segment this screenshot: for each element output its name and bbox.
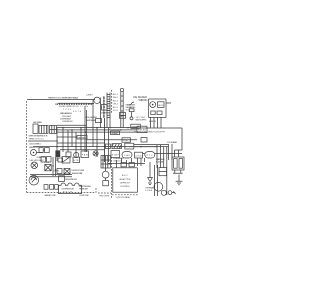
junction dots on bus	[62, 127, 129, 133]
connector P5: jamb column hatched header	[101, 156, 111, 169]
svg-text:START RELAY: START RELAY	[156, 158, 166, 161]
svg-text:FAN: FAN	[82, 154, 88, 157]
wire: cabinet liner dashed boundary (left)	[26, 101, 28, 192]
svg-text:GRN: GRN	[53, 171, 59, 173]
node label: mid small box left	[111, 131, 120, 135]
box: door switch pair	[41, 157, 51, 162]
svg-text:HTR: HTR	[74, 160, 79, 162]
fuse F1: box with X	[45, 164, 51, 170]
svg-text:FRZ LIGHT: FRZ LIGHT	[100, 196, 111, 198]
node label: mid rows	[72, 170, 86, 175]
svg-text:115V 60HZ: 115V 60HZ	[62, 116, 72, 118]
svg-text:WH BK OR: WH BK OR	[59, 106, 69, 108]
timer M1: defrost timer narrow box	[33, 124, 38, 133]
bus: main supply line L	[57, 127, 138, 129]
connector J1: terminal strip with ticks	[56, 103, 92, 105]
wire: drop x85.5 double	[85, 106, 87, 152]
box: small connector stub	[96, 119, 102, 123]
svg-text:MAIN HARNESS: MAIN HARNESS	[60, 112, 73, 115]
lamp L3: small bulb below module	[131, 112, 133, 117]
node label: mid small box right	[122, 138, 131, 142]
node label: thermal fuse text	[145, 187, 155, 193]
box: heater tag	[73, 157, 80, 162]
svg-text:BU-5: BU-5	[113, 107, 119, 109]
capacitor C1: pill component	[122, 152, 132, 158]
title: ICE MAKER WIRING	[131, 95, 148, 104]
bus: main supply line G	[57, 131, 138, 133]
svg-text:CONTROL: CONTROL	[120, 186, 131, 188]
svg-text:RELAY: RELAY	[138, 129, 147, 132]
svg-text:RSCR: RSCR	[63, 191, 72, 193]
junction dots rung D	[56, 146, 142, 148]
svg-text:COLD CONTROL: COLD CONTROL	[29, 143, 42, 145]
ground: flag arrow symbol	[148, 162, 153, 185]
svg-text:DEFROST: DEFROST	[120, 182, 131, 184]
wire: drop x72	[71, 130, 73, 147]
node label: upper small box	[131, 124, 141, 128]
wire: ovld drops to ADC	[138, 158, 145, 166]
svg-text:SENSOR: SENSOR	[132, 127, 140, 129]
node label: mid harness rows right	[85, 116, 97, 122]
left cluster: defrost components	[31, 148, 50, 156]
svg-text:WH-2: WH-2	[113, 97, 119, 99]
wire: low voltage dashed boundary	[111, 157, 113, 199]
svg-text:COMP GND: COMP GND	[79, 195, 89, 197]
wire: long rung D	[33, 146, 168, 148]
wire: cabinet liner dashed boundary (bottom)	[27, 188, 96, 192]
wire: freezer light dashed bottom	[98, 192, 111, 194]
box: band small box B	[129, 163, 135, 167]
wire: lamp stem pair	[99, 98, 101, 128]
wire: block bottom stubs	[173, 170, 183, 173]
box: aux contact small box	[141, 138, 147, 143]
svg-text:DEFROST TIMER MOTOR: DEFROST TIMER MOTOR	[29, 136, 48, 138]
svg-text:DOOR JAMB: DOOR JAMB	[167, 141, 178, 144]
svg-text:RD BU GY: RD BU GY	[69, 106, 80, 108]
box: right small relay	[159, 168, 167, 176]
wire: cluster verticals	[53, 157, 56, 176]
switch S2: grid contact box	[50, 125, 57, 133]
svg-text:ADAPTIVE: ADAPTIVE	[120, 178, 132, 181]
svg-text:FRESH FOOD: FRESH FOOD	[29, 147, 39, 149]
svg-text:60HZ SUPPLY: 60HZ SUPPLY	[136, 120, 148, 122]
svg-text:LIMIT: LIMIT	[123, 140, 131, 142]
svg-text:1 2 3 4: 1 2 3 4	[63, 109, 72, 111]
svg-text:THERMOSTAT: THERMOSTAT	[72, 172, 84, 175]
node label: ice maker pair rows	[126, 103, 133, 111]
relay K2: icemaker module box	[158, 102, 164, 108]
box: band small box A	[121, 163, 127, 167]
vertical wires from bus	[57, 100, 109, 162]
wire: partial upper bus line	[57, 124, 86, 126]
svg-text:BK-1: BK-1	[113, 94, 119, 96]
svg-text:LOW VOLTAGE: LOW VOLTAGE	[116, 196, 131, 199]
lamp L1: door liner light loop	[89, 97, 101, 104]
ground: small chassis mark	[168, 191, 176, 195]
motor M2: condenser fan motor	[29, 175, 39, 185]
cable W2: hatched cable run	[103, 96, 105, 118]
svg-text:TERM 1 3 TO 2 4: TERM 1 3 TO 2 4	[29, 139, 45, 141]
lamp L4: freezer light bulb	[102, 168, 109, 180]
cable W3: ice maker twisted pair	[120, 88, 123, 128]
svg-text:DEF HTR 450W: DEF HTR 450W	[30, 160, 45, 162]
wire: drop x63	[62, 128, 64, 152]
wire: left cluster link	[37, 150, 45, 153]
wire: left lower horizontal	[28, 140, 58, 142]
svg-text:RD-3: RD-3	[113, 100, 119, 102]
box: mesh bottom labelled box	[81, 151, 88, 158]
net names: right text column at connector	[112, 90, 119, 114]
receptacle J4: dual slot terminal block	[172, 157, 184, 170]
box: light socket	[103, 181, 109, 186]
svg-text:FUSE: FUSE	[145, 190, 153, 192]
compressor M4: shell with bumps	[59, 183, 82, 194]
svg-text:EARTH: EARTH	[149, 120, 156, 123]
wire: drop x68	[67, 130, 69, 152]
wire: lower-left rails	[30, 175, 72, 177]
svg-text:WIRING: WIRING	[139, 98, 148, 102]
connector P3: ladder bundle	[107, 93, 110, 128]
fuse F3: x-box mid	[64, 169, 70, 175]
wire: rung E	[60, 149, 105, 151]
wire: compartment top border	[27, 99, 95, 101]
label: low voltage dashed under ADC	[112, 195, 138, 199]
relay K1: start relay pill	[145, 152, 155, 158]
wire: right pair drops	[169, 144, 173, 160]
wire: leader to icemaker rows	[131, 102, 134, 104]
timer M1: cam box with segments	[39, 125, 48, 133]
switch S4: light switch circle with X	[31, 162, 38, 169]
node label: start relay text	[156, 158, 166, 164]
wire: drop x81	[80, 128, 82, 150]
wire: drop x76	[75, 132, 77, 157]
svg-text:ADC: ADC	[122, 174, 128, 177]
ground: earth symbol	[176, 175, 183, 185]
box: overload protector	[135, 152, 143, 158]
svg-text:LAMP: LAMP	[86, 93, 94, 96]
svg-text:FRESH FOOD COMPARTMENT AREA: FRESH FOOD COMPARTMENT AREA	[48, 96, 79, 99]
svg-text:CABINET GND: CABINET GND	[44, 194, 56, 197]
lamp L6: small circle with x	[93, 151, 98, 156]
thermostat S3: circle with dot	[31, 150, 37, 156]
wire: right feed drop	[181, 128, 183, 150]
wire: ladder rung B	[87, 139, 137, 141]
wire: drop x93	[92, 100, 94, 146]
node label: compressor side rows	[79, 185, 91, 191]
pilot lamp L2: mesh bottom circle	[74, 152, 79, 157]
wire: drop x104.5	[104, 118, 106, 162]
wire: ladder rung A	[57, 136, 77, 138]
controller U1: adaptive defrost control	[113, 168, 138, 192]
svg-text:RUN CAP: RUN CAP	[156, 160, 165, 163]
box: terminal pair A	[39, 148, 43, 153]
svg-text:CONN BLOCK: CONN BLOCK	[62, 121, 74, 123]
svg-text:CAP: CAP	[124, 154, 131, 157]
box: mesh bottom small box	[66, 152, 71, 157]
transformer T1: dark core blob	[55, 150, 60, 157]
svg-text:YL TN: YL TN	[80, 106, 88, 108]
box: aux small box mid	[106, 144, 111, 149]
svg-text:EVAP: EVAP	[112, 153, 120, 156]
bus: main supply line N	[57, 129, 138, 131]
svg-text:PTC: PTC	[147, 155, 153, 157]
box: run winding tag	[59, 176, 65, 182]
svg-text:RUN WINDING: RUN WINDING	[65, 179, 77, 181]
wire: band hline	[108, 162, 145, 164]
box: terminal pair B	[45, 148, 50, 153]
wire: ADC input drops	[117, 158, 132, 168]
heater R4: icemaker mold heater	[151, 111, 155, 115]
wire: icemaker leads down	[151, 117, 162, 128]
wire: drop x108.5	[108, 128, 110, 162]
svg-text:PROTECTOR: PROTECTOR	[79, 189, 88, 191]
lamp L5: small indicator circle	[161, 190, 166, 195]
svg-text:OR-4: OR-4	[113, 104, 119, 106]
svg-text:SHUTOFF ARM: SHUTOFF ARM	[86, 119, 96, 122]
motor M5: fan motor circle	[154, 182, 163, 191]
svg-text:GUARD: GUARD	[111, 132, 118, 135]
box: evap fan	[111, 151, 120, 158]
svg-text:START WINDING: START WINDING	[79, 185, 91, 188]
wire: icemaker feed horizontal run	[133, 127, 182, 129]
pin labels under terminal strip J1	[59, 106, 88, 113]
wire: drop x97	[96, 128, 98, 157]
ice maker U2: head dashed enclosure	[149, 99, 171, 117]
svg-text:THERMAL: THERMAL	[145, 187, 155, 190]
node label: lamp small box	[102, 104, 108, 110]
wire: lower band rails	[143, 153, 183, 155]
svg-text:15A: 15A	[44, 161, 50, 164]
box: defrost term A	[57, 169, 62, 174]
node label: lower-left of ADC text rows	[108, 158, 145, 167]
box: small junction block	[58, 158, 63, 162]
svg-text:115 VAC: 115 VAC	[136, 116, 146, 119]
duct: tall channel pair	[155, 165, 158, 196]
node label: 115VAC source rows	[136, 116, 157, 123]
node label: small rows left of icemaker head	[129, 105, 136, 120]
wire: jog to block pair	[175, 150, 183, 157]
valve Y1: water valve box on pair	[119, 113, 125, 119]
switch S5: mullion switch boxes	[62, 157, 70, 163]
row of terminal blocks	[44, 185, 58, 190]
label box: rung A tag	[77, 136, 87, 139]
wire: right rungs to drops	[134, 145, 168, 147]
box: defrost limit switch	[125, 143, 134, 149]
junction dots cluster	[52, 165, 56, 170]
svg-text:GY-6: GY-6	[113, 110, 119, 112]
svg-text:L-SW: L-SW	[126, 146, 134, 148]
resistor R2: hatched heater box	[112, 144, 122, 149]
node label: left text rows under timer	[29, 136, 48, 141]
svg-text:MOD: MOD	[158, 105, 163, 107]
wire: ladder rung C	[57, 142, 105, 144]
svg-text:OVLD: OVLD	[135, 155, 142, 157]
wire: drop x57	[56, 128, 58, 161]
wire: right vertical drops	[157, 145, 167, 195]
node label: harness text rows center	[60, 112, 73, 121]
svg-text:5 6 7 8: 5 6 7 8	[73, 111, 82, 113]
motor M3: icemaker motor circle	[150, 102, 156, 108]
box U4: relay block on bus	[137, 126, 147, 132]
svg-text:COMPRESSOR: COMPRESSOR	[61, 189, 74, 191]
